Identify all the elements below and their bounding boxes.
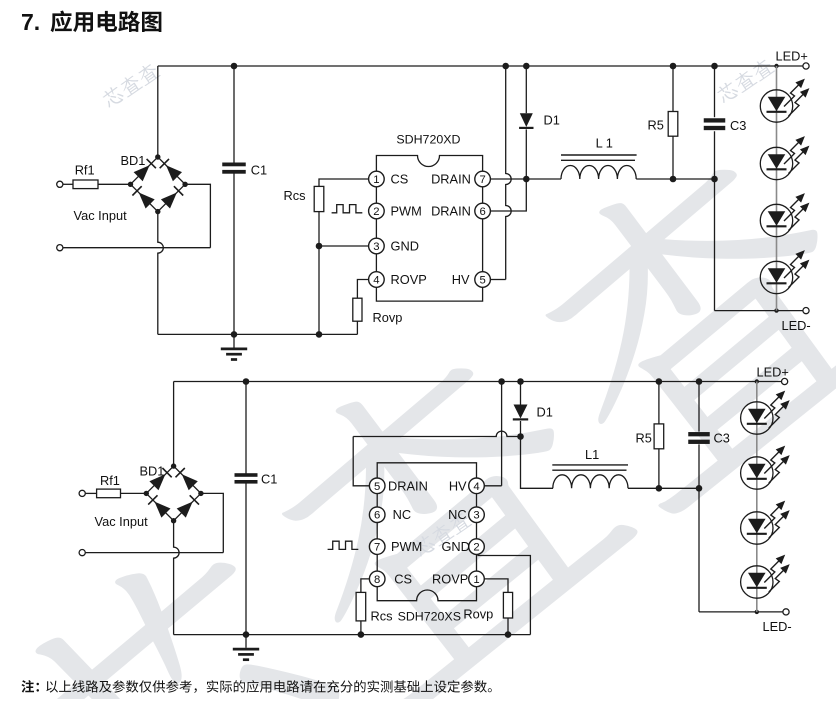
label LED- top circuit xyxy=(782,318,811,333)
bridge rectifier BD1 top xyxy=(128,154,188,214)
diode D1 top xyxy=(519,66,533,179)
svg-text:L1: L1 xyxy=(585,447,599,462)
node rail-C3 xyxy=(711,63,718,70)
wire pin7 to node xyxy=(490,178,526,180)
svg-text:Rovp: Rovp xyxy=(463,607,493,622)
wire LED string bottom ckt xyxy=(756,382,758,612)
svg-text:C3: C3 xyxy=(730,118,746,133)
wire C1 upper bottom ckt xyxy=(245,382,247,474)
svg-text:5: 5 xyxy=(374,481,380,493)
wire C1 lower bottom ckt xyxy=(245,483,247,634)
label L1 top xyxy=(596,136,613,151)
svg-text:PWM: PWM xyxy=(391,203,422,218)
svg-text:5: 5 xyxy=(479,275,485,287)
pin 6 NC b xyxy=(369,507,385,523)
op-amp U2 SDH720XS box xyxy=(377,463,476,601)
svg-text:3: 3 xyxy=(373,241,379,253)
node gnd-Rcs xyxy=(316,331,323,338)
svg-text:2: 2 xyxy=(373,206,379,218)
resistor Rf1 bottom ckt xyxy=(97,489,121,498)
label LED+ bottom ckt xyxy=(757,365,789,380)
node L1-C3 xyxy=(711,176,718,183)
svg-text:LED-: LED- xyxy=(763,619,792,634)
terminal LED+ bottom ckt xyxy=(782,378,788,384)
label Vac Input top xyxy=(74,208,128,223)
svg-text:LED+: LED+ xyxy=(776,49,808,64)
label SDH720XD xyxy=(396,133,460,147)
node rail-R5 xyxy=(670,63,677,70)
node L1-R5 b xyxy=(656,485,663,492)
wire Vac return bottom ckt xyxy=(86,493,224,552)
capacitor C3 top xyxy=(704,66,726,311)
LED D2 top string xyxy=(760,79,809,123)
svg-text:BD1: BD1 xyxy=(140,463,165,478)
wire Rcs to gnd wire xyxy=(318,212,320,335)
node D1-L1 junction xyxy=(523,176,530,183)
LED D2 bottom string xyxy=(741,391,790,435)
svg-text:C3: C3 xyxy=(714,431,730,446)
terminal LED+ top xyxy=(803,63,809,69)
node rail2-C1 xyxy=(243,378,250,385)
wire top ground rail xyxy=(158,333,358,335)
svg-text:CS: CS xyxy=(394,571,412,586)
wire Rcs to rail bottom ckt xyxy=(360,621,362,635)
node rail-LED string xyxy=(774,64,778,68)
svg-text:LED-: LED- xyxy=(782,318,811,333)
pwm waveform glyph bottom xyxy=(328,541,359,549)
op-amp U1 SDH720XD box xyxy=(376,156,482,302)
svg-text:Rf1: Rf1 xyxy=(100,473,120,488)
resistor Rovp top xyxy=(353,298,362,321)
svg-text:NC: NC xyxy=(448,507,466,522)
label Rovp top xyxy=(373,310,403,325)
svg-text:6: 6 xyxy=(479,206,485,218)
svg-text:D1: D1 xyxy=(537,404,553,419)
pin 1 CS xyxy=(369,171,385,187)
wire Vac bottom to bridge right xyxy=(63,184,210,247)
node rail2-R5 xyxy=(656,378,663,385)
LED D4 top string xyxy=(760,193,809,237)
svg-text:LED+: LED+ xyxy=(757,365,789,380)
wire LED string top circuit xyxy=(776,66,778,311)
capacitor C1 top xyxy=(222,163,246,174)
svg-text:7: 7 xyxy=(479,174,485,186)
pin 3 NC b xyxy=(469,507,485,523)
wire pin4 HV up bottom ckt xyxy=(484,382,501,486)
wire HV line rail to pin5 (hops) xyxy=(490,66,511,280)
svg-text:GND: GND xyxy=(391,238,419,253)
svg-text:NC: NC xyxy=(393,507,411,522)
node rail2-HV xyxy=(498,378,505,385)
label CS xyxy=(391,171,409,186)
pin 7 PWM b xyxy=(369,539,385,555)
pin 8 CS b xyxy=(369,571,385,587)
svg-text:Vac Input: Vac Input xyxy=(74,208,128,223)
label Rf1 xyxy=(75,163,95,178)
label CS b xyxy=(394,571,412,586)
wire bridge bottom to ground rail (hop) xyxy=(158,212,164,335)
wire pin3 GND xyxy=(319,245,370,247)
label R5 bottom ckt xyxy=(636,430,652,445)
watermark small 芯查查 xyxy=(412,510,473,559)
pin 5 HV xyxy=(475,272,491,288)
svg-text:R5: R5 xyxy=(648,118,664,133)
wire bottom ground rail xyxy=(174,634,531,636)
svg-text:PWM: PWM xyxy=(391,539,422,554)
capacitor C1 bottom ckt xyxy=(235,473,258,483)
title 7. 应用电路图 xyxy=(21,9,161,35)
wire C1 upper xyxy=(233,66,235,163)
label LED+ top xyxy=(776,49,808,64)
label DRAIN6 xyxy=(431,203,471,218)
wire pin2 GND bottom ckt xyxy=(478,554,530,634)
label R5 top xyxy=(648,118,664,133)
node gnd2-Rovp xyxy=(505,631,512,638)
svg-text:SDH720XS: SDH720XS xyxy=(398,610,461,624)
label Rovp bottom ckt xyxy=(463,607,493,622)
LED D3 top string xyxy=(760,136,809,180)
svg-text:C1: C1 xyxy=(251,162,267,177)
label C1 top xyxy=(251,162,267,177)
terminal LED- top circuit xyxy=(803,308,809,314)
watermark small 芯查查 xyxy=(100,61,161,110)
svg-text:D1: D1 xyxy=(544,112,560,127)
label LED- bottom ckt xyxy=(763,619,792,634)
label BD1 bottom ckt xyxy=(140,463,165,478)
node L1-C3 b xyxy=(696,485,703,492)
resistor R5 top xyxy=(668,66,678,179)
LED D5 top string xyxy=(760,250,809,294)
label PWM xyxy=(391,203,422,218)
label NC b right xyxy=(448,507,466,522)
svg-text:Vac Input: Vac Input xyxy=(95,514,149,529)
label C1 bottom ckt xyxy=(261,472,277,487)
label BD1 top xyxy=(121,153,146,168)
svg-text:C1: C1 xyxy=(261,472,277,487)
node LED string bottom xyxy=(774,308,778,312)
label GND b xyxy=(441,539,469,554)
wire bridge bottom to gnd rail (hop) bottom ckt xyxy=(174,521,180,635)
svg-text:7.: 7. xyxy=(21,9,40,35)
svg-text:BD1: BD1 xyxy=(121,153,146,168)
svg-text:4: 4 xyxy=(373,275,379,287)
svg-text:Rovp: Rovp xyxy=(373,310,403,325)
svg-text:ROVP: ROVP xyxy=(432,571,468,586)
label PWM b xyxy=(391,539,422,554)
wire Rovp to gnd rail xyxy=(356,321,358,334)
wire top DC+ rail xyxy=(158,65,803,67)
label Rf1 bottom ckt xyxy=(100,473,120,488)
label DRAIN b xyxy=(388,478,428,493)
node LED string bottom b xyxy=(755,610,759,614)
label Rcs bottom ckt xyxy=(371,608,393,623)
terminal LED- bottom ckt xyxy=(783,609,789,615)
svg-text:DRAIN: DRAIN xyxy=(431,171,471,186)
wire DRAIN loop bottom ckt xyxy=(353,431,520,486)
label D1 top xyxy=(544,112,560,127)
wire pin4 ROVP to Rovp xyxy=(357,280,370,299)
svg-text:Rf1: Rf1 xyxy=(75,163,95,178)
svg-text:1: 1 xyxy=(473,574,479,586)
pin 2 GND b xyxy=(469,539,485,555)
wire pin1 ROVP to Rovp bottom ckt xyxy=(484,579,508,593)
watermark small 芯查查 xyxy=(715,56,776,105)
svg-text:GND: GND xyxy=(441,539,469,554)
wire pin8 CS to Rcs xyxy=(361,579,371,593)
ground bottom circuit xyxy=(233,635,259,660)
node rail-D1 xyxy=(523,63,530,70)
diode D1 bottom ckt xyxy=(513,382,528,437)
label ROVP xyxy=(391,272,427,287)
pin 1 ROVP b xyxy=(469,571,485,587)
pin 2 PWM xyxy=(369,203,385,219)
wire Rf1 left lead xyxy=(63,183,73,185)
LED D3 bottom string xyxy=(741,446,790,490)
wire LED- bottom ckt xyxy=(699,611,783,613)
note text xyxy=(22,680,492,693)
label DRAIN7 xyxy=(431,171,471,186)
svg-text:1: 1 xyxy=(373,174,379,186)
svg-text:8: 8 xyxy=(374,574,380,586)
node gnd2-Rcs xyxy=(358,631,365,638)
pin 4 HV b xyxy=(469,478,485,494)
ground top circuit xyxy=(221,334,247,359)
node rail2-D1 xyxy=(517,378,524,385)
wire bottom DC+ rail xyxy=(174,381,782,383)
wire C1 lower xyxy=(233,174,235,335)
svg-text:HV: HV xyxy=(452,272,470,287)
wire Rf1 to bridge xyxy=(98,183,131,185)
wire bridge top to rail bottom ckt xyxy=(173,382,175,467)
node rail2-C3 xyxy=(696,378,703,385)
resistor Rcs top xyxy=(314,186,324,211)
bridge rectifier BD1 bottom ckt xyxy=(144,463,204,523)
label HV xyxy=(452,272,470,287)
label L1 bottom ckt xyxy=(585,447,599,462)
svg-text:Rcs: Rcs xyxy=(284,188,306,203)
terminal Vac bottom xyxy=(57,245,63,251)
svg-text:SDH720XD: SDH720XD xyxy=(396,133,460,147)
capacitor C3 bottom ckt xyxy=(688,382,710,612)
node Rcs-GND junction xyxy=(316,243,323,250)
resistor Rf1 xyxy=(73,180,98,189)
label SDH720XS xyxy=(398,610,461,624)
node gnd2-C1 xyxy=(243,631,250,638)
terminal Vac bottom ckt top xyxy=(79,490,85,496)
pwm waveform glyph top xyxy=(332,205,363,213)
pin 5 DRAIN b xyxy=(369,478,385,494)
node gnd-C1 xyxy=(231,331,238,338)
label C3 top xyxy=(730,118,746,133)
wire pin6 to node xyxy=(490,179,526,211)
svg-text:6: 6 xyxy=(374,510,380,522)
resistor R5 bottom ckt xyxy=(654,382,664,489)
inductor L1 top xyxy=(526,155,714,179)
node rail-HV xyxy=(502,63,509,70)
label GND xyxy=(391,238,419,253)
svg-text:L 1: L 1 xyxy=(596,136,613,151)
pin 7 DRAIN xyxy=(475,171,491,187)
wire bridge top to rail xyxy=(157,66,159,157)
svg-text:4: 4 xyxy=(473,481,479,493)
wire Rovp to rail bottom ckt xyxy=(507,618,509,635)
LED D4 bottom string xyxy=(741,501,790,545)
label Rcs top xyxy=(284,188,306,203)
svg-text:HV: HV xyxy=(449,478,467,493)
svg-text:7: 7 xyxy=(374,542,380,554)
label Vac Input bottom ckt xyxy=(95,514,149,529)
node DRAIN-D1 junction xyxy=(517,433,524,440)
label ROVP b xyxy=(432,571,468,586)
node rail-C1 xyxy=(231,63,238,70)
wire Rf1 lead bottom ckt xyxy=(86,492,97,494)
node L1-R5 xyxy=(670,176,677,183)
inductor L1 bottom ckt xyxy=(552,465,699,488)
svg-text:CS: CS xyxy=(391,171,409,186)
label D1 bottom ckt xyxy=(537,404,553,419)
label HV b xyxy=(449,478,467,493)
wire D1 node to L1 bottom ckt xyxy=(521,437,554,489)
svg-text:2: 2 xyxy=(473,542,479,554)
label NC b left xyxy=(393,507,411,522)
wire Rf1 to bridge bottom ckt xyxy=(121,492,147,494)
label C3 bottom ckt xyxy=(714,431,730,446)
svg-text:ROVP: ROVP xyxy=(391,272,427,287)
pin 6 DRAIN xyxy=(475,203,491,219)
svg-text:DRAIN: DRAIN xyxy=(431,203,471,218)
wire pin1 CS to Rcs xyxy=(319,179,370,186)
terminal Vac top xyxy=(57,181,63,187)
node rail2-LED string xyxy=(755,379,759,383)
resistor Rcs bottom ckt xyxy=(356,592,366,621)
svg-text:3: 3 xyxy=(473,510,479,522)
svg-text:R5: R5 xyxy=(636,430,652,445)
resistor Rovp bottom ckt xyxy=(503,592,512,618)
terminal Vac bottom ckt bottom xyxy=(79,550,85,556)
pin 4 ROVP xyxy=(369,272,385,288)
wire LED- bottom xyxy=(715,310,804,312)
LED D5 bottom string xyxy=(741,555,790,599)
svg-text:Rcs: Rcs xyxy=(371,608,393,623)
svg-text:DRAIN: DRAIN xyxy=(388,478,428,493)
pin 3 GND xyxy=(369,238,385,254)
